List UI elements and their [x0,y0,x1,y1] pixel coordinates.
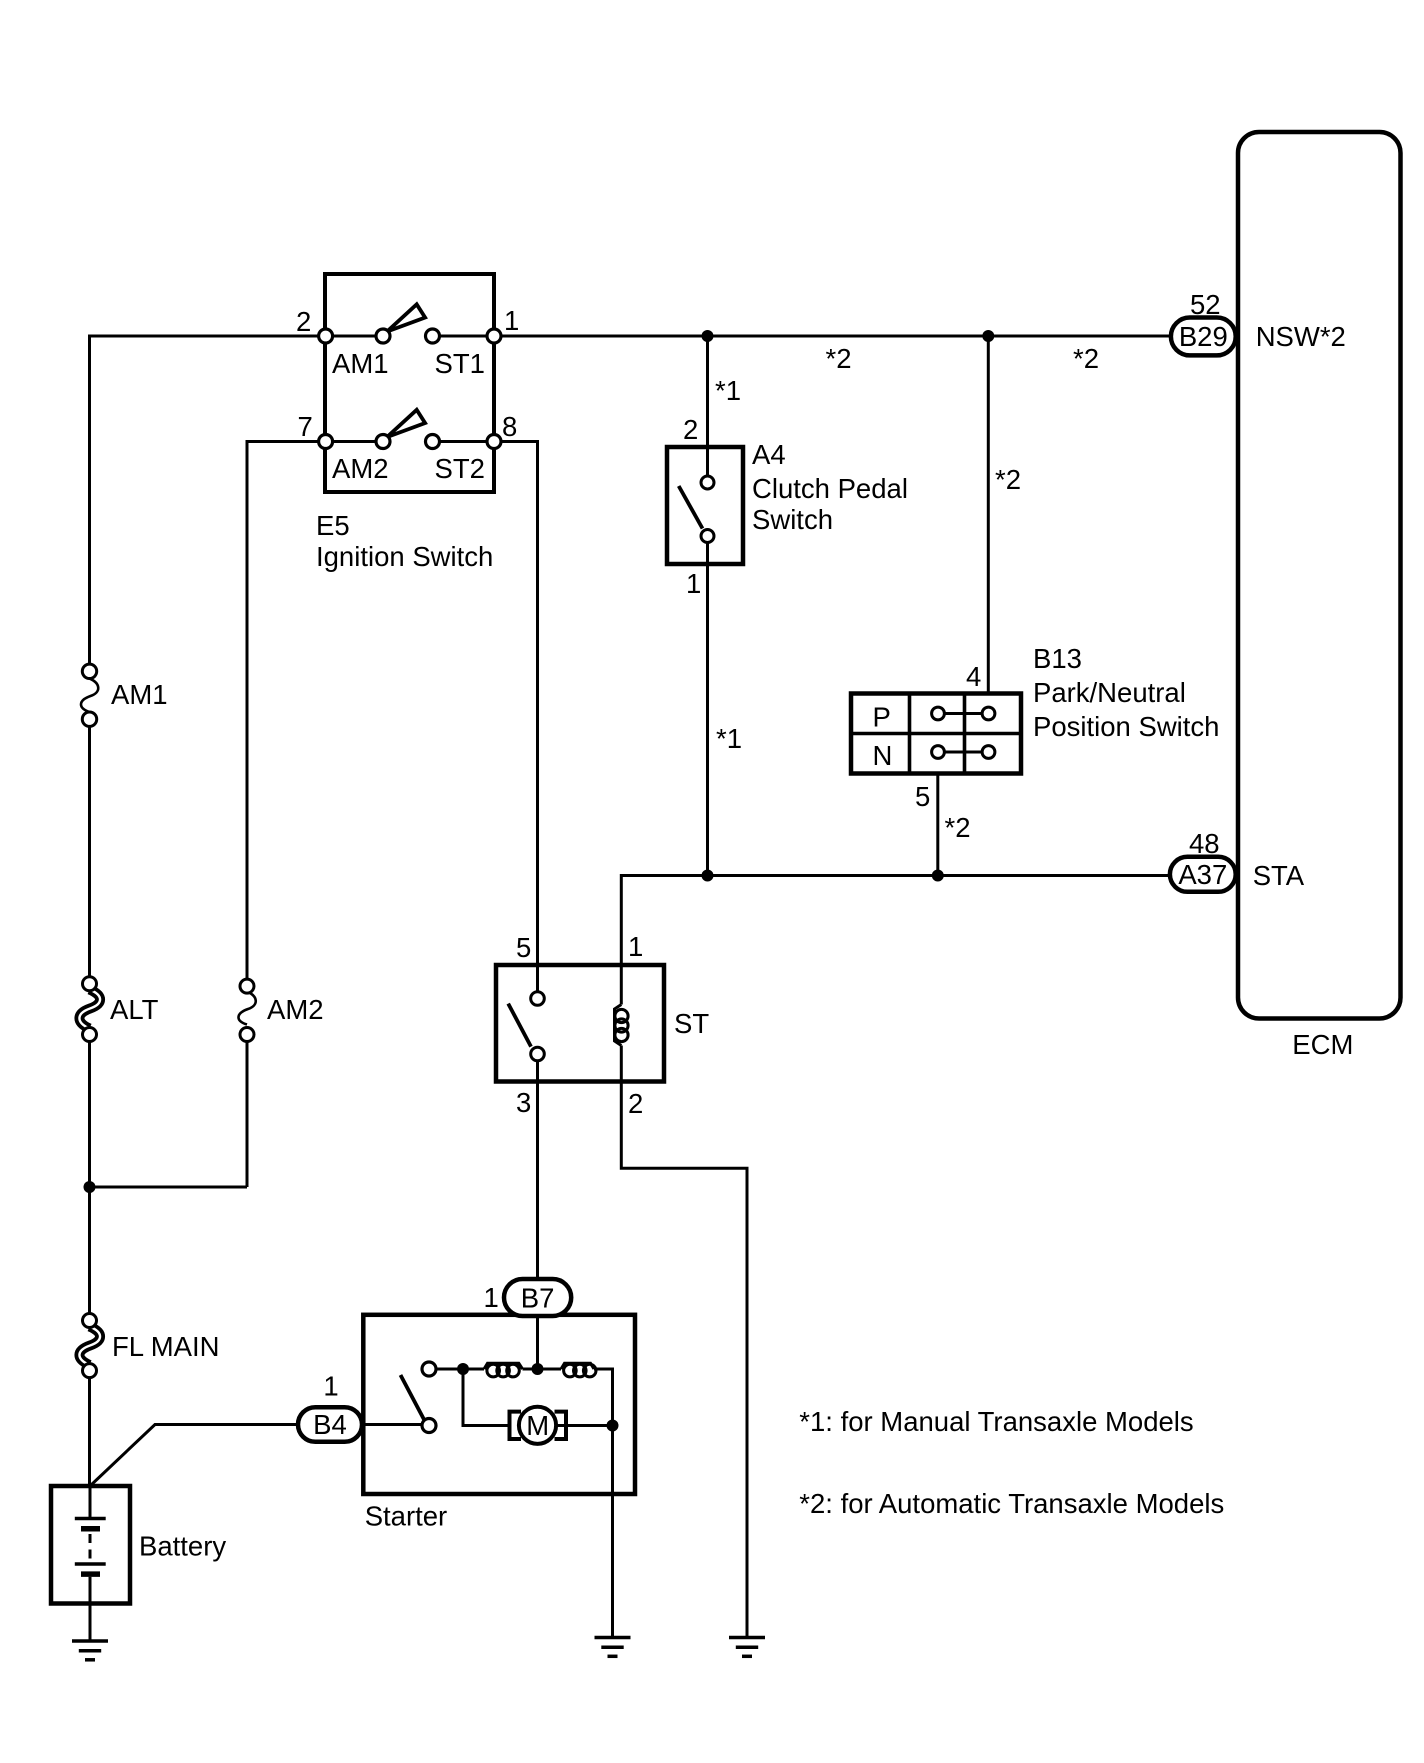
wire: AM2 branch vertical from ignition pin 7 down to fuse AM2 [247,442,383,980]
svg-text:*2: *2 [995,464,1021,495]
wire: fuse FL MAIN to battery top [88,1378,91,1487]
svg-text:B29: B29 [1179,321,1228,352]
B13 P-row right contact [982,707,995,720]
fusible link ALT [79,977,100,1042]
wire: STA line from relay pin 1 riser to ECM A37 [621,876,1170,966]
wire: motor right side to junction then down to ground [556,1426,613,1638]
battery cell: short plate 1 [81,1526,100,1532]
junction: motor output / ground drop [607,1420,619,1432]
svg-text:ALT: ALT [110,994,159,1025]
clutch switch lever [679,486,703,529]
starter solenoid output contact [422,1362,436,1376]
clutch switch pin 1 contact [701,530,714,543]
B13 N-row right contact [982,746,995,759]
svg-text:3: 3 [516,1087,531,1118]
wire: battery positive rail to ignition pin 2 (horizontal top-left, then left rail down) [90,336,384,664]
svg-text:P: P [873,702,891,733]
battery internal top lead [89,1486,92,1519]
svg-text:1: 1 [323,1370,338,1401]
svg-text:4: 4 [966,661,981,692]
ignition switch AM1 contact [376,329,390,343]
wire: ignition ST1 contact to pin 1 and main line to ECM B29 [433,335,1172,338]
relay coil leads [620,965,623,1005]
wire: relay pin 3 down to starter connector B7 [536,1061,539,1280]
starter solenoid lever [401,1375,425,1420]
wire: ignition ST2 contact to pin 8 then down to relay pin 5 [433,442,538,966]
ground (relay pin 2 / starter solenoid coil) [729,1638,765,1657]
B13 P-row left contact [932,707,945,720]
svg-text:ST1: ST1 [435,348,485,379]
wire: solenoid output contact to coil junction A [436,1368,485,1371]
ignition switch E5 box [325,274,494,492]
wire: clutch switch branch from main line down to A4 box [706,336,709,477]
svg-text:Park/Neutral: Park/Neutral [1033,677,1186,708]
svg-text:Clutch Pedal: Clutch Pedal [752,473,908,504]
svg-text:2: 2 [296,306,311,337]
svg-text:B4: B4 [313,1409,347,1440]
battery cell: dashed link [89,1534,92,1561]
wire: jog from left rail junction to AM2 branch [90,1186,248,1189]
svg-text:Ignition Switch: Ignition Switch [316,541,493,572]
ignition switch ST2 contact [426,435,440,449]
wire: B13 pin 5 down to STA line [936,774,939,876]
B13 P-row contact bar [938,712,989,715]
svg-text:1: 1 [504,305,519,336]
svg-text:A4: A4 [752,439,786,470]
battery cell: short plate 2 [81,1571,100,1577]
B13 N-row left contact [932,746,945,759]
svg-text:B13: B13 [1033,643,1082,674]
wire: park/neutral branch from main line down to B13 pin 4 [987,336,990,694]
wire: AM2 branch vertical from fuse AM2 down to jog [246,1041,249,1187]
relay coil ST [615,1005,629,1046]
svg-text:ST: ST [674,1008,709,1039]
svg-text:ST2: ST2 [435,453,485,484]
fuse AM1 [81,664,98,726]
ignition switch E5 lever AM2-ST2 [387,410,425,437]
relay switch lever [508,1004,531,1047]
svg-text:AM2: AM2 [267,994,324,1025]
wire: field coil 2 to right corner then down to motor junction [594,1369,613,1426]
svg-text:FL MAIN: FL MAIN [112,1331,219,1362]
connector B29 pin 52 [1171,318,1236,356]
connector B7 (starter terminal 50) [504,1279,571,1316]
B13 internal column divider 1 [908,694,912,774]
ground (starter motor) [595,1638,631,1657]
svg-text:*2: for Automatic Transaxle Mo: *2: for Automatic Transaxle Models [799,1488,1224,1519]
wire: relay pin 2 down, jog right, down to ground [621,1046,747,1638]
battery cell: long plate 1 [75,1517,106,1521]
svg-text:Battery: Battery [139,1531,226,1562]
svg-text:1: 1 [686,568,701,599]
svg-text:STA: STA [1253,860,1305,891]
fusible link FL MAIN [79,1314,100,1378]
svg-text:E5: E5 [316,510,350,541]
wire: clutch switch pin 1 down to STA line [706,543,709,876]
starter relay ST box [496,965,664,1082]
svg-text:N: N [873,740,893,771]
ignition switch E5 lever AM1-ST1 [387,304,425,331]
relay switch upper contact [531,992,545,1006]
B13 internal row divider [851,732,1021,736]
svg-text:*1: *1 [716,723,742,754]
starter solenoid input contact [422,1419,436,1433]
svg-text:*1: *1 [715,375,741,406]
connector A37 pin 48 [1170,857,1236,892]
wire: junction A drop to motor row and over to motor [463,1369,510,1426]
svg-text:AM1: AM1 [111,679,168,710]
svg-text:5: 5 [915,781,930,812]
svg-text:Switch: Switch [752,504,833,535]
ignition switch pin 1 terminal [487,329,501,343]
wire: left rail between fuse ALT and junction [88,1041,91,1187]
relay pin 5 internal lead [536,965,539,992]
svg-text:Starter: Starter [365,1501,448,1532]
svg-text:8: 8 [502,411,517,442]
svg-text:*2: *2 [1073,343,1099,374]
svg-text:B7: B7 [521,1282,555,1313]
wire: battery positive to B4 connector (diagonal + horizontal) [90,1425,299,1487]
svg-text:M: M [526,1410,549,1441]
svg-text:*2: *2 [945,812,971,843]
junction: STA line / park-neutral branch [932,870,944,882]
relay switch lower contact [531,1047,545,1061]
svg-text:*2: *2 [826,343,852,374]
starter box [363,1315,635,1494]
svg-text:52: 52 [1190,289,1221,320]
svg-text:1: 1 [484,1282,499,1313]
wire: B4 connector into starter solenoid contact [362,1423,423,1426]
starter field coil 2 [561,1363,596,1377]
clutch pedal switch A4 box [667,447,743,564]
svg-text:NSW*2: NSW*2 [1256,321,1346,352]
ignition switch pin 2 terminal [319,329,333,343]
wire: starter B7 connector down to field coil junction [536,1316,539,1370]
svg-text:*1: for Manual Transaxle Model: *1: for Manual Transaxle Models [799,1406,1193,1437]
battery internal bottom lead to ground [89,1577,92,1641]
svg-text:48: 48 [1189,828,1220,859]
ECM box [1238,132,1401,1019]
battery cell: long plate 2 [75,1562,106,1566]
B13 N-row contact bar [938,751,989,754]
svg-text:Position Switch: Position Switch [1033,711,1219,742]
svg-text:AM2: AM2 [332,453,389,484]
connector B4 (starter terminal 30) [298,1407,362,1442]
ignition switch ST1 contact [426,329,440,343]
starter field coil 1 [484,1363,523,1377]
battery box [51,1486,130,1604]
svg-text:ECM: ECM [1292,1029,1353,1060]
junction: STA line / clutch branch [702,870,714,882]
svg-text:2: 2 [683,414,698,445]
svg-text:1: 1 [628,931,643,962]
svg-text:AM1: AM1 [332,348,389,379]
junction: main line to clutch pedal switch branch [702,330,714,342]
ignition switch AM2 contact [376,435,390,449]
svg-text:A37: A37 [1178,859,1227,890]
ignition switch pin 8 terminal [487,435,501,449]
ground (battery) [72,1641,108,1660]
fuse AM2 [238,979,255,1041]
junction: B7 feed on field coil row [532,1363,544,1375]
svg-text:7: 7 [298,411,313,442]
wire: left rail between junction and fuse FL MAIN [88,1187,91,1314]
clutch switch pin 2 contact [701,476,714,489]
wire: between field coil 1 and field coil 2 [523,1368,562,1371]
junction: left rail / AM2 branch [84,1181,96,1193]
svg-text:5: 5 [516,932,531,963]
starter motor M [510,1407,567,1444]
ignition switch pin 7 terminal [319,435,333,449]
junction: main line to park/neutral switch branch [982,330,994,342]
wire: left rail between fuse AM1 and fuse ALT [88,726,91,977]
junction: solenoid contact / motor feed (junction A) [457,1363,469,1375]
svg-text:2: 2 [628,1088,643,1119]
B13 internal column divider 2 [963,694,967,774]
park/neutral position switch B13 box [851,694,1021,774]
